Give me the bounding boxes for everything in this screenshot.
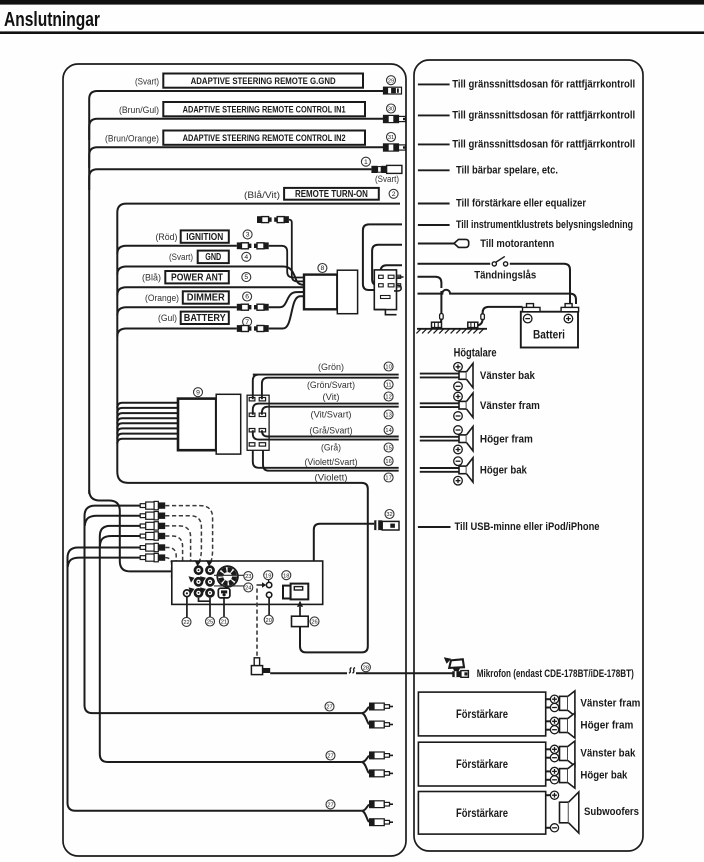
- svg-text:Förstärkare: Förstärkare: [456, 807, 508, 820]
- white jack 22: [184, 590, 191, 597]
- bullet pair 7: [237, 325, 269, 332]
- svg-text:(Svart): (Svart): [135, 77, 159, 88]
- svg-text:(Blå): (Blå): [142, 273, 161, 284]
- svg-text:Batteri: Batteri: [533, 329, 565, 342]
- svg-text:6: 6: [245, 294, 249, 301]
- mini jack 20: [266, 592, 271, 597]
- wire battery pair to block8: [269, 296, 304, 328]
- leader motor antenna: [418, 243, 454, 245]
- bullet pair 3: [237, 242, 269, 249]
- cable 27 a split: [361, 707, 369, 725]
- aux jack icon 21: [218, 588, 230, 598]
- svg-text:(Orange): (Orange): [145, 293, 179, 304]
- speaker Vänster fram wires: [420, 402, 459, 404]
- wire spare pair down to block8: [289, 220, 304, 282]
- line to num 21: [223, 598, 225, 617]
- dashed leads from plugs to jacks: [165, 506, 212, 563]
- svg-text:10: 10: [385, 365, 391, 371]
- num 30: [387, 104, 396, 113]
- leader 29: [418, 83, 450, 85]
- line 24 to jacks: [214, 585, 244, 587]
- svg-text:BATTERY: BATTERY: [184, 313, 226, 324]
- svg-text:Tändningslås: Tändningslås: [474, 269, 536, 281]
- chassis ground hatch: [416, 329, 487, 334]
- svg-text:12: 12: [385, 395, 391, 401]
- arrow up into antenna jack: [297, 601, 303, 616]
- svg-text:27: 27: [327, 754, 333, 760]
- gnd bend 2: [476, 319, 483, 326]
- connector block 8: [304, 275, 337, 310]
- usb plug 32: [374, 520, 399, 530]
- svg-text:Vänster bak: Vänster bak: [480, 370, 536, 382]
- box battery: [181, 312, 229, 324]
- svg-text:20: 20: [266, 618, 272, 624]
- box gnd: [198, 251, 229, 264]
- speaker Höger bak wires: [420, 467, 459, 469]
- svg-text:GND: GND: [205, 252, 221, 263]
- leader illumination: [418, 224, 450, 226]
- svg-text:Anslutningar: Anslutningar: [4, 8, 100, 31]
- speaker Höger bak plus terminal: [454, 457, 463, 466]
- num 7: [243, 317, 252, 326]
- wire gnd jog into block8: [283, 267, 304, 285]
- speaker pin strip: [247, 395, 269, 450]
- svg-text:REMOTE TURN-ON: REMOTE TURN-ON: [295, 189, 368, 200]
- svg-text:Till bärbar spelare, etc.: Till bärbar spelare, etc.: [456, 165, 558, 177]
- speaker Vänster bak plus terminal: [454, 363, 463, 372]
- num 19: [264, 571, 273, 580]
- svg-text:(Vit/Svart): (Vit/Svart): [311, 410, 352, 421]
- wire steering remote in2 (Brun/Orange): [89, 147, 383, 168]
- svg-text:(Grå/Svart): (Grå/Svart): [310, 425, 353, 436]
- amp output Vänster fram: [546, 698, 553, 700]
- title bottom rule: [0, 31, 704, 34]
- wire dimmer (Orange): [117, 307, 237, 315]
- wire motor antenna loop: [372, 245, 402, 285]
- battery plus symbol: [564, 314, 573, 323]
- svg-text:11: 11: [386, 383, 392, 389]
- num 27 a: [325, 702, 334, 711]
- speaker wire pair C (Gra-Svart / Gra): [262, 430, 399, 436]
- iso right pin u-turn row2: [394, 285, 401, 291]
- svg-text:23: 23: [245, 574, 251, 580]
- num 2: [389, 189, 398, 198]
- svg-text:Förstärkare: Förstärkare: [456, 708, 508, 721]
- mic cable: [270, 672, 347, 674]
- speaker Höger fram wires: [420, 436, 459, 438]
- svg-text:(Violett/Svart): (Violett/Svart): [305, 457, 358, 468]
- connector 31: [384, 144, 406, 151]
- line to num 22: [186, 597, 188, 617]
- svg-text:31: 31: [388, 135, 394, 141]
- rca feed pair A down: [85, 506, 362, 713]
- amp output Vänster bak: [546, 748, 553, 750]
- speaker Vänster bak icon: [459, 363, 473, 387]
- bullet pair 6: [237, 304, 269, 311]
- box adaptive steering remote control in1: [163, 102, 365, 116]
- num 8: [318, 264, 327, 273]
- ground bolt 2: [468, 322, 478, 327]
- svg-text:29: 29: [388, 78, 394, 84]
- svg-text:DIMMER: DIMMER: [187, 293, 226, 304]
- svg-text:ADAPTIVE STEERING REMOTE G.GND: ADAPTIVE STEERING REMOTE G.GND: [191, 76, 336, 86]
- connector 30: [384, 115, 406, 122]
- battery plus post: [561, 304, 579, 312]
- iso right pin stub row1: [397, 276, 404, 278]
- wire battery (Gul): [117, 329, 237, 337]
- svg-text:14: 14: [385, 428, 391, 434]
- leader portable: [418, 169, 450, 171]
- battery minus ground wire: [483, 307, 523, 314]
- num 5: [242, 273, 251, 282]
- fan wires into connector 9: [117, 403, 178, 408]
- box adaptive steering remote control in2: [163, 131, 365, 145]
- bullet pair upper spare: [257, 216, 289, 223]
- svg-text:Vänster bak: Vänster bak: [580, 748, 636, 760]
- antenna plug 26: [292, 616, 309, 626]
- leader 30: [418, 114, 450, 116]
- title bar top rule: [0, 0, 704, 5]
- svg-text:19: 19: [265, 573, 271, 579]
- svg-text:13: 13: [385, 413, 391, 419]
- svg-text:Till instrumentklustrets belys: Till instrumentklustrets belysningsledni…: [456, 219, 633, 231]
- svg-text:Höger fram: Höger fram: [580, 720, 633, 732]
- num 9: [194, 388, 203, 397]
- svg-text:POWER ANT: POWER ANT: [171, 272, 223, 283]
- wire steering remote ground (Svart): [89, 91, 383, 494]
- svg-text:4: 4: [244, 254, 248, 261]
- amplifier box: [418, 692, 545, 736]
- num 23: [244, 572, 253, 581]
- switch contacts: [492, 256, 508, 266]
- svg-text:Höger fram: Höger fram: [480, 433, 533, 445]
- num 21: [219, 617, 228, 626]
- svg-text:(Grön): (Grön): [318, 362, 344, 373]
- speaker Vänster fram minus terminal: [454, 412, 463, 421]
- num 28: [361, 663, 370, 672]
- leader usb: [418, 526, 451, 528]
- wire 1 to portable player: [89, 169, 371, 190]
- svg-text:Till motorantenn: Till motorantenn: [480, 238, 554, 250]
- battery minus symbol: [523, 314, 532, 323]
- svg-text:(Svart): (Svart): [375, 174, 399, 185]
- wire dimmer pair to block8: [269, 292, 304, 307]
- svg-text:(Brun/Orange): (Brun/Orange): [105, 134, 159, 145]
- svg-text:27: 27: [326, 705, 332, 711]
- speaker Höger fram icon: [459, 427, 473, 451]
- svg-text:24: 24: [245, 586, 251, 592]
- svg-text:1: 1: [364, 159, 368, 166]
- antenna barbell plug 1: [371, 165, 402, 173]
- gnd wire lower part: [440, 291, 442, 314]
- rca jacks rows: [194, 560, 204, 575]
- connector 9 black box: [178, 399, 216, 451]
- speaker Höger fram minus terminal: [454, 445, 463, 454]
- svg-text:9: 9: [196, 389, 200, 396]
- svg-text:8: 8: [321, 265, 325, 272]
- iso pin block: [374, 270, 400, 315]
- num 20: [264, 615, 273, 624]
- line to num 20: [268, 598, 270, 616]
- rca plugs 27 c: [369, 800, 393, 808]
- svg-text:25: 25: [207, 620, 213, 626]
- svg-text:2: 2: [392, 191, 396, 198]
- svg-text:ADAPTIVE STEERING REMOTE CONTR: ADAPTIVE STEERING REMOTE CONTROL IN2: [183, 133, 346, 143]
- svg-text:Mikrofon (endast CDE-178BT/iDE: Mikrofon (endast CDE-178BT/iDE-178BT): [477, 668, 634, 680]
- speaker Höger fram plus terminal: [454, 426, 463, 435]
- rca plugs into unit: [140, 501, 165, 509]
- svg-text:Till gränssnittsdosan för ratt: Till gränssnittsdosan för rattfjärrkontr…: [452, 110, 635, 122]
- wire gnd (Svart): [117, 267, 283, 275]
- svg-text:17: 17: [385, 476, 391, 482]
- svg-text:5: 5: [244, 274, 248, 281]
- speaker Vänster fram icon: [459, 393, 473, 417]
- svg-text:(Violett): (Violett): [315, 472, 348, 483]
- antenna receptacle 18: [283, 584, 308, 600]
- svg-text:15: 15: [385, 446, 391, 452]
- svg-text:Vänster fram: Vänster fram: [480, 400, 540, 412]
- cable 27 c split: [361, 805, 369, 823]
- svg-text:Vänster fram: Vänster fram: [580, 698, 640, 710]
- wire ignition pair to block8: [269, 246, 304, 278]
- num 3: [243, 230, 252, 239]
- svg-text:32: 32: [386, 512, 392, 518]
- num 6: [243, 292, 252, 301]
- svg-text:3: 3: [246, 232, 250, 239]
- unit rear panel: [172, 561, 323, 604]
- speaker wire pair D (Violett-Svart / Violett): [253, 450, 399, 468]
- num 26: [310, 617, 319, 626]
- svg-text:(Vit): (Vit): [323, 392, 340, 403]
- amp output Höger fram: [546, 720, 553, 722]
- num 16: [384, 457, 393, 466]
- amp output subwoofers: [546, 794, 553, 796]
- box ignition: [181, 230, 229, 242]
- motor antenna plug icon: [454, 239, 469, 247]
- svg-text:Högtalare: Högtalare: [454, 346, 497, 360]
- bracket to num 25: [199, 598, 211, 617]
- cable 27 b split: [361, 756, 369, 774]
- svg-text:(Brun/Gul): (Brun/Gul): [119, 105, 159, 116]
- speaker Höger bak icon: [459, 458, 473, 482]
- num 31: [387, 133, 396, 142]
- svg-text:21: 21: [221, 620, 227, 626]
- num 22: [182, 617, 191, 626]
- num 15: [384, 443, 393, 452]
- microphone icon: [444, 657, 469, 677]
- leader amplifier: [418, 203, 450, 205]
- svg-text:30: 30: [388, 107, 394, 113]
- box dimmer: [183, 291, 229, 303]
- battery constant wire with hop: [418, 290, 577, 304]
- speaker Vänster bak minus terminal: [454, 382, 463, 391]
- amp output Höger bak: [546, 770, 553, 772]
- svg-text:(Svart): (Svart): [169, 252, 193, 263]
- num 13: [384, 410, 393, 419]
- svg-text:(Grön/Svart): (Grön/Svart): [307, 380, 355, 391]
- amplifier box: [418, 792, 545, 835]
- ignition switch wire: [418, 264, 571, 304]
- fan icon: [217, 566, 238, 587]
- num 11: [384, 380, 393, 389]
- num 14: [384, 426, 393, 435]
- mic plug into unit: [251, 658, 270, 675]
- wire steering remote in1 (Brun/Gul): [89, 119, 383, 140]
- num 18: [282, 571, 291, 580]
- rca feed pair B down: [100, 526, 362, 762]
- svg-text:Till USB-minne eller iPod/iPho: Till USB-minne eller iPod/iPhone: [455, 521, 600, 533]
- svg-text:16: 16: [385, 459, 391, 465]
- amplifier box: [418, 742, 545, 786]
- svg-text:(Blå/Vit): (Blå/Vit): [244, 190, 280, 201]
- svg-text:Höger bak: Höger bak: [580, 770, 628, 782]
- crimp terminal 1: [440, 314, 444, 320]
- num 27 c: [326, 800, 335, 809]
- speaker Höger bak minus terminal: [454, 476, 463, 485]
- svg-text:(Grå): (Grå): [321, 443, 341, 454]
- num 4: [242, 252, 251, 261]
- svg-text:28: 28: [363, 665, 369, 671]
- ground bolt 1: [432, 322, 442, 327]
- svg-text:26: 26: [311, 620, 317, 626]
- svg-text:18: 18: [283, 573, 289, 579]
- battery minus post: [523, 304, 541, 312]
- line 19 to jack: [268, 580, 270, 582]
- svg-text:(Gul): (Gul): [158, 313, 177, 324]
- svg-text:IGNITION: IGNITION: [186, 232, 223, 243]
- num 17: [384, 473, 393, 482]
- speaker wire pair B (Vit / Vit-Svart): [253, 404, 399, 415]
- crimp terminal 2: [481, 314, 485, 320]
- speaker Vänster fram plus terminal: [454, 392, 463, 401]
- num 12: [384, 392, 393, 401]
- mic dashed lead: [256, 589, 258, 659]
- mic cable right part: [356, 672, 453, 674]
- svg-text:Subwoofers: Subwoofers: [584, 806, 639, 818]
- connector 9 white plug: [216, 394, 241, 454]
- wire ignition switch feed: [381, 265, 402, 272]
- connector 29: [384, 87, 402, 94]
- wire illumination loop: [363, 224, 402, 290]
- trunk bundle jog to unit: [89, 490, 172, 571]
- cable break squiggle: [349, 668, 355, 674]
- connector 8 white plug: [337, 270, 357, 314]
- num 1: [361, 157, 370, 166]
- rca plugs 27 b: [369, 751, 393, 759]
- mini jack 19: [257, 582, 272, 587]
- svg-text:Höger bak: Höger bak: [480, 465, 528, 477]
- num 25: [206, 617, 215, 626]
- speaker Vänster bak wires: [420, 373, 459, 375]
- leader 31: [418, 143, 450, 145]
- wire power ant (Bla): [117, 287, 304, 295]
- svg-text:Till gränssnittsdosan för ratt: Till gränssnittsdosan för rattfjärrkontr…: [452, 139, 635, 151]
- num 32: [385, 510, 394, 519]
- right figure border: [414, 60, 643, 851]
- wire ignition (Rod): [117, 246, 237, 254]
- usb wire: [314, 524, 374, 561]
- gnd wire from unit: [418, 277, 442, 288]
- svg-text:ADAPTIVE STEERING REMOTE CONTR: ADAPTIVE STEERING REMOTE CONTROL IN1: [183, 104, 346, 114]
- num 27 b: [326, 751, 335, 760]
- num 10: [384, 362, 393, 371]
- box remote turn-on: [284, 188, 379, 200]
- svg-text:22: 22: [183, 620, 189, 626]
- num 24: [244, 583, 253, 592]
- svg-text:(Röd): (Röd): [156, 232, 178, 243]
- box power ant: [165, 271, 229, 283]
- svg-text:Förstärkare: Förstärkare: [456, 758, 508, 771]
- gnd bend 1: [435, 319, 442, 326]
- battery box: [521, 312, 578, 348]
- left figure border: [63, 64, 406, 856]
- svg-text:Till gränssnittsdosan för ratt: Till gränssnittsdosan för rattfjärrkontr…: [452, 79, 635, 91]
- speaker wire pair A (Gron / Gron-Svart): [253, 375, 399, 400]
- wire remote turn-on (Bla/Vit) and trunk bundle + antenna feed: [117, 204, 400, 653]
- num 29: [387, 76, 396, 85]
- svg-text:27: 27: [327, 803, 333, 809]
- box adaptive steering remote g.gnd: [163, 74, 363, 88]
- svg-text:Till förstärkare eller equaliz: Till förstärkare eller equalizer: [456, 198, 586, 210]
- rca plugs 27 a: [369, 703, 393, 711]
- rca feed pair C down: [68, 548, 362, 811]
- line 23 to jacks: [214, 574, 244, 576]
